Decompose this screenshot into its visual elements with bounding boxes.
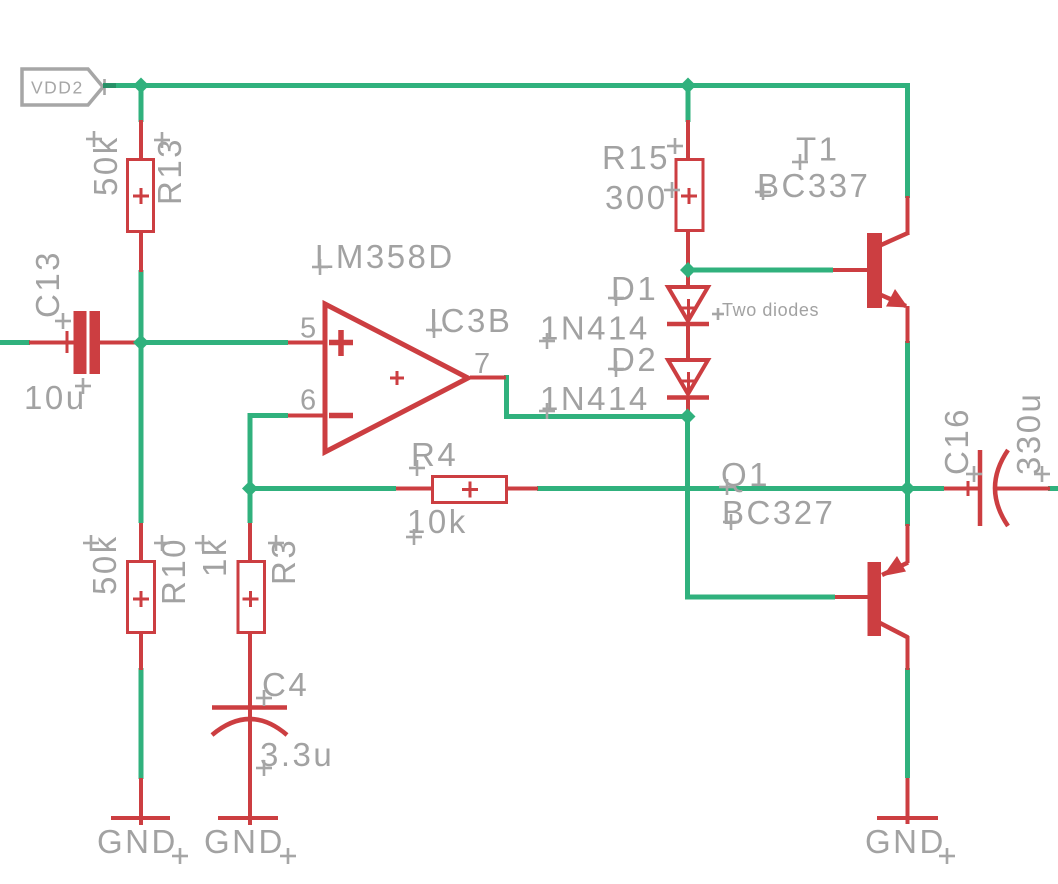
- wire VDD2 rail top: [103, 86, 908, 199]
- svg-text:D2: D2: [611, 341, 658, 378]
- svg-text:D1: D1: [611, 270, 658, 307]
- resistor R3: [238, 523, 265, 672]
- resistor R13: [128, 120, 154, 272]
- svg-text:R13: R13: [151, 137, 188, 205]
- label 10k: [406, 503, 468, 545]
- svg-text:50k: 50k: [87, 135, 124, 196]
- label T1: [792, 131, 840, 171]
- junction node R15-D1-T1base: [680, 262, 696, 278]
- diode D2: [667, 360, 709, 418]
- ground GND3: [865, 778, 955, 864]
- junction node output C16: [900, 481, 916, 497]
- svg-text:6: 6: [300, 385, 316, 417]
- svg-text:10u: 10u: [24, 379, 87, 416]
- svg-text:LM358D: LM358D: [315, 238, 455, 275]
- svg-text:1N414: 1N414: [540, 380, 650, 417]
- svg-text:BC327: BC327: [722, 494, 835, 531]
- svg-text:C16: C16: [938, 407, 975, 475]
- wire node to R4: [250, 486, 396, 491]
- ground GND2: [204, 778, 296, 864]
- resistor R15: [676, 120, 703, 268]
- svg-text:GND: GND: [204, 823, 285, 860]
- wire T1 emitter to output node: [905, 341, 910, 526]
- svg-text:Two diodes: Two diodes: [722, 300, 819, 320]
- svg-text:R3: R3: [265, 538, 302, 585]
- supply flag VDD2: [22, 69, 105, 105]
- label 50k of R10: [83, 534, 123, 595]
- svg-text:5: 5: [300, 313, 316, 345]
- svg-text:GND: GND: [97, 823, 178, 860]
- wire opamp output corner: [504, 378, 688, 417]
- svg-text:10k: 10k: [407, 503, 468, 540]
- label IC3B: [426, 302, 512, 339]
- label LM358D: [312, 238, 455, 275]
- junction node C13-R13-opamp: [133, 335, 149, 351]
- label BC337: [755, 167, 870, 204]
- junction node rail-R15: [680, 78, 696, 94]
- wire D2 node down to Q1 base: [688, 417, 836, 598]
- label C16: [938, 407, 982, 482]
- diode D1: [667, 268, 709, 362]
- label D2: [608, 341, 658, 378]
- label Q1: [719, 456, 770, 495]
- label 1N414 of D2: [539, 380, 650, 419]
- svg-text:R15: R15: [602, 139, 670, 176]
- junction node D2-output: [680, 409, 696, 425]
- svg-text:GND: GND: [865, 823, 946, 860]
- label 1N414 of D1: [539, 310, 650, 350]
- resistor R4: [396, 477, 538, 503]
- wire rail to R15: [686, 86, 691, 123]
- svg-text:IC3B: IC3B: [429, 302, 512, 339]
- svg-text:330u: 330u: [1010, 392, 1047, 475]
- wire output node to C16: [908, 486, 945, 491]
- transistor T1: [833, 196, 909, 343]
- wire C16 right to edge: [1048, 486, 1058, 491]
- svg-text:C13: C13: [29, 250, 66, 318]
- label R15: [602, 138, 683, 176]
- label BC327: [722, 494, 835, 531]
- label 330u: [1010, 392, 1050, 482]
- wire input left to C13: [0, 340, 30, 345]
- wire C13 node to opamp pin5: [141, 340, 288, 345]
- label 50k of R13: [86, 131, 124, 196]
- junction node rail-R13: [133, 78, 149, 94]
- label R10: [154, 535, 192, 605]
- label R3: [265, 535, 302, 585]
- capacitor C16: [944, 450, 1050, 526]
- label Two diodes: [712, 300, 819, 320]
- svg-text:VDD2: VDD2: [31, 78, 84, 98]
- label D1: [608, 270, 658, 307]
- wire R13 to C13 node to R10: [139, 270, 144, 523]
- svg-text:BC337: BC337: [757, 167, 870, 204]
- label 1k of R3: [195, 535, 233, 577]
- label 300: [605, 179, 680, 216]
- wire R4 to output node: [537, 486, 908, 491]
- svg-text:300: 300: [605, 179, 668, 216]
- svg-text:R10: R10: [155, 537, 192, 605]
- transistor Q1: [835, 524, 908, 670]
- junction node feedback R4: [242, 481, 258, 497]
- wire Q1 collector to GND: [905, 668, 910, 778]
- label 3.3u: [256, 736, 334, 776]
- wire rail to R13: [139, 86, 144, 123]
- wire R10 to GND: [139, 668, 144, 779]
- capacitor C13: [29, 311, 139, 374]
- svg-text:7: 7: [474, 348, 490, 380]
- resistor R10: [128, 523, 155, 670]
- label R4: [409, 436, 458, 476]
- wire flag pin overlap: [103, 83, 116, 88]
- label C4: [256, 666, 309, 706]
- ground GND1: [97, 778, 188, 864]
- op-amp IC3B: [288, 304, 506, 452]
- capacitor C4: [212, 670, 287, 780]
- wire R15/D1 node to T1 base: [688, 268, 833, 273]
- label R13: [151, 132, 188, 205]
- wire opamp pin6 to feedback node: [250, 416, 288, 524]
- label C13: [29, 250, 71, 329]
- label 10u: [24, 378, 91, 416]
